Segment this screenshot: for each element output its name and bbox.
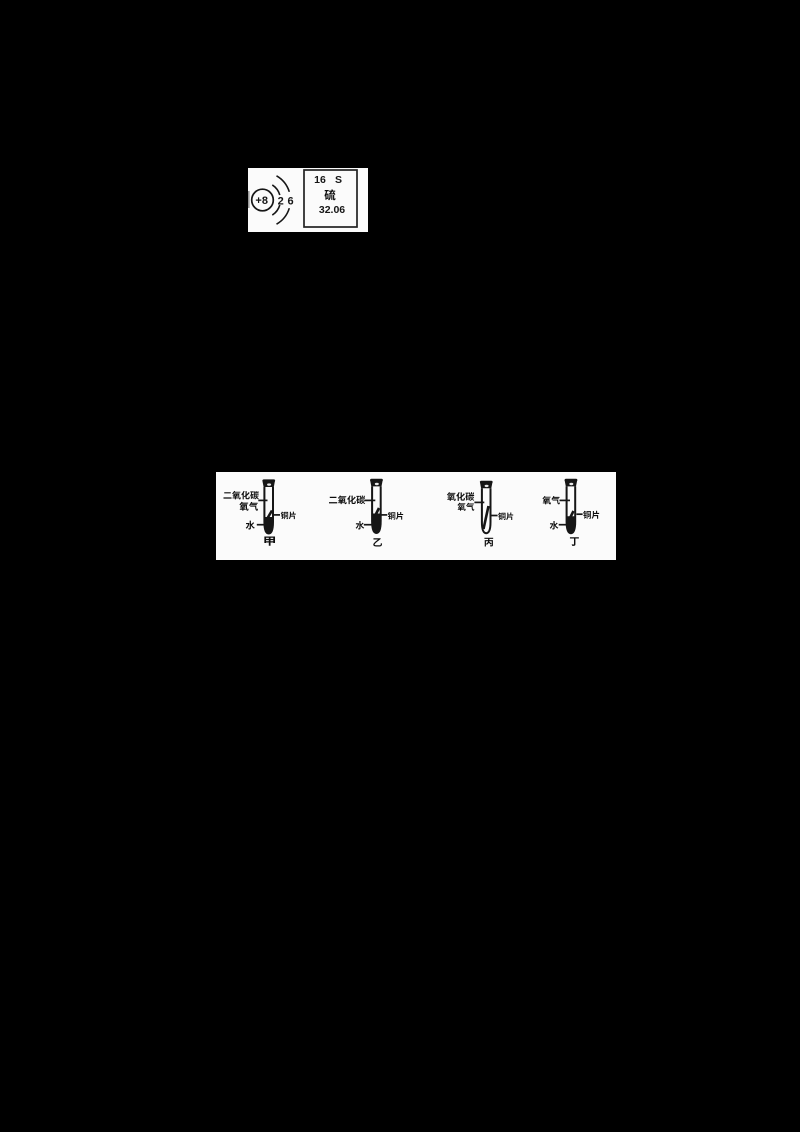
pointer copper (甲) — [273, 514, 280, 516]
test tube 甲 — [262, 480, 275, 487]
label 铜片 (丙) — [498, 513, 505, 521]
pointer water (乙) — [364, 524, 373, 526]
pointer copper (丙) — [491, 515, 498, 517]
caption 丙 — [484, 538, 493, 547]
caption 丁 — [570, 537, 579, 546]
label 二氧化碳 (乙) — [329, 497, 337, 504]
pointer gas (甲) — [258, 499, 267, 501]
pointer water (丁) — [559, 524, 568, 526]
label 水 (甲) — [246, 521, 255, 530]
panel: four test tube experiment 甲乙丙丁 — [216, 472, 616, 560]
svg-text:32.06: 32.06 — [319, 204, 345, 216]
test tube 丙 (dry, copper strip) — [480, 482, 493, 489]
label 氧气 (甲) — [239, 502, 248, 511]
electron shell arc inner (2) — [272, 185, 280, 195]
caption 乙 — [373, 538, 382, 546]
pointer gas (乙) — [365, 499, 376, 501]
label 氧气 (丙) — [457, 503, 465, 511]
label 铜片 (丁) — [583, 511, 591, 519]
pointer water (甲) — [257, 524, 267, 526]
label 氧化碳 (丙) — [447, 492, 456, 501]
element name 硫 — [324, 189, 335, 200]
test tube 乙 — [370, 480, 383, 487]
svg-text:+8: +8 — [255, 195, 268, 207]
label 铜片 (甲) — [281, 512, 288, 520]
label 水 (乙) — [356, 521, 365, 529]
label 铜片 (乙) — [388, 512, 396, 520]
pointer gas (丙) — [474, 501, 484, 503]
nucleus circle +8 — [252, 189, 274, 211]
pointer gas (丁) — [560, 499, 571, 501]
panel: atomic structure + periodic table cell — [248, 168, 368, 232]
caption 甲 — [264, 536, 275, 545]
electron shell arc outer (6) — [277, 176, 290, 192]
svg-text:16: 16 — [314, 174, 326, 186]
label 二氧化碳 (甲) — [223, 492, 231, 498]
test tube 丁 — [565, 480, 578, 487]
svg-text:2: 2 — [278, 196, 284, 208]
pointer copper (丁) — [576, 513, 582, 515]
element box sulfur — [304, 170, 357, 227]
pointer copper (乙) — [381, 514, 388, 516]
scan artifact grey bar — [248, 191, 250, 208]
label 氧气 (丁) — [542, 496, 551, 504]
svg-text:6: 6 — [288, 196, 294, 208]
svg-text:S: S — [335, 174, 342, 186]
label 水 (丁) — [550, 521, 559, 529]
